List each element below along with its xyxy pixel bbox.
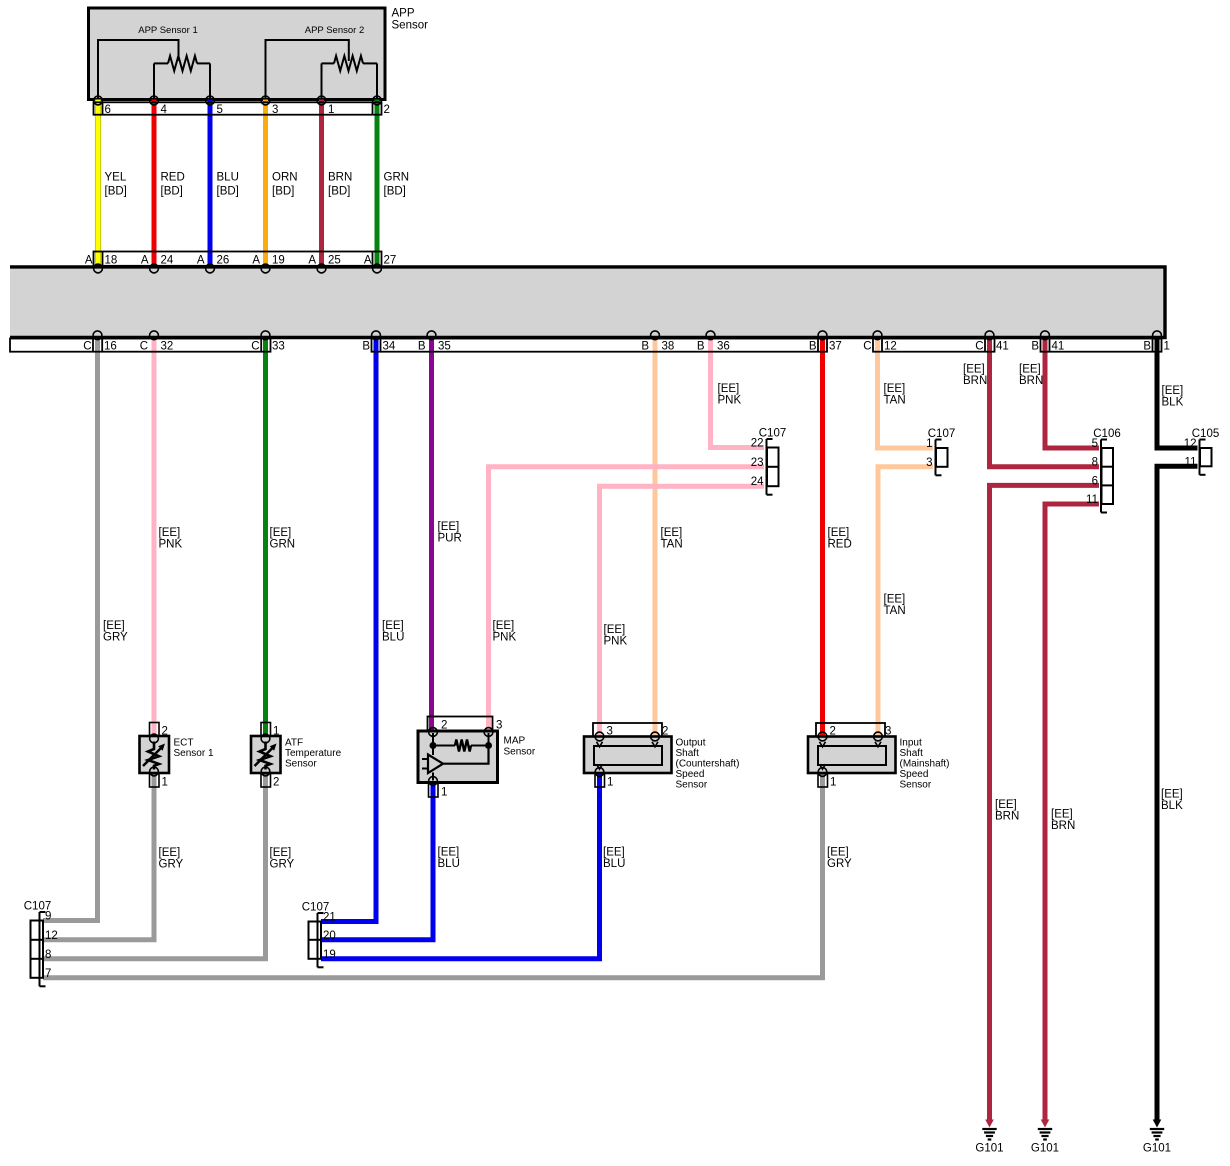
svg-text:PUR: PUR: [438, 533, 462, 545]
svg-text:TAN: TAN: [884, 395, 906, 407]
svg-text:C: C: [251, 341, 259, 353]
svg-text:[EE]: [EE]: [828, 527, 850, 539]
svg-text:[BD]: [BD]: [161, 186, 183, 198]
svg-text:C: C: [83, 341, 91, 353]
svg-text:[EE]: [EE]: [438, 521, 460, 533]
svg-text:A: A: [197, 255, 205, 267]
svg-text:B: B: [1143, 341, 1151, 353]
svg-text:[EE]: [EE]: [718, 383, 740, 395]
svg-text:GRY: GRY: [103, 632, 128, 644]
svg-text:41: 41: [1052, 341, 1065, 353]
svg-text:A: A: [141, 255, 149, 267]
svg-text:18: 18: [105, 255, 118, 267]
svg-text:Sensor: Sensor: [676, 780, 708, 791]
svg-text:ORN: ORN: [272, 172, 298, 184]
svg-text:Sensor 1: Sensor 1: [174, 748, 214, 759]
svg-text:C106: C106: [1093, 428, 1121, 440]
svg-text:[EE]: [EE]: [884, 594, 906, 606]
svg-text:APP Sensor 1: APP Sensor 1: [138, 25, 198, 36]
svg-text:4: 4: [161, 104, 168, 116]
svg-text:6: 6: [105, 104, 111, 116]
svg-text:GRY: GRY: [827, 858, 852, 870]
svg-text:[EE]: [EE]: [1019, 364, 1041, 376]
svg-text:[EE]: [EE]: [270, 527, 292, 539]
svg-text:41: 41: [996, 341, 1009, 353]
svg-text:G101: G101: [1031, 1143, 1059, 1155]
svg-text:BLK: BLK: [1162, 397, 1184, 409]
svg-text:YEL: YEL: [105, 172, 127, 184]
svg-text:26: 26: [217, 255, 230, 267]
svg-text:8: 8: [45, 949, 51, 961]
svg-text:[EE]: [EE]: [603, 847, 625, 859]
svg-text:B: B: [362, 341, 370, 353]
svg-text:C107: C107: [759, 428, 787, 440]
svg-text:TAN: TAN: [661, 539, 683, 551]
svg-text:[EE]: [EE]: [103, 620, 125, 632]
svg-text:BRN: BRN: [1019, 375, 1043, 387]
svg-text:C107: C107: [302, 902, 330, 914]
svg-text:[EE]: [EE]: [661, 527, 683, 539]
svg-text:23: 23: [751, 457, 764, 469]
svg-text:8: 8: [1092, 457, 1098, 469]
svg-text:Shaft: Shaft: [676, 748, 700, 759]
svg-text:BLU: BLU: [382, 632, 404, 644]
svg-text:C107: C107: [928, 428, 956, 440]
svg-text:(Countershaft): (Countershaft): [676, 759, 740, 770]
svg-text:Shaft: Shaft: [900, 748, 924, 759]
svg-text:16: 16: [104, 341, 117, 353]
svg-text:[EE]: [EE]: [995, 799, 1017, 811]
svg-text:32: 32: [161, 341, 174, 353]
svg-text:Sensor: Sensor: [900, 780, 932, 791]
svg-text:[BD]: [BD]: [217, 186, 239, 198]
svg-text:GRN: GRN: [270, 539, 296, 551]
svg-text:[EE]: [EE]: [382, 620, 404, 632]
svg-text:BRN: BRN: [1051, 820, 1075, 832]
svg-text:[EE]: [EE]: [827, 847, 849, 859]
svg-text:PNK: PNK: [604, 636, 628, 648]
svg-text:37: 37: [829, 341, 842, 353]
svg-text:[EE]: [EE]: [270, 847, 292, 859]
svg-text:[EE]: [EE]: [963, 364, 985, 376]
svg-text:6: 6: [1092, 475, 1098, 487]
svg-text:Output: Output: [676, 738, 706, 749]
svg-text:APP Sensor 2: APP Sensor 2: [305, 25, 365, 36]
svg-text:MAP: MAP: [504, 736, 526, 747]
svg-text:Sensor: Sensor: [285, 759, 317, 770]
svg-text:1: 1: [1164, 341, 1170, 353]
svg-text:C: C: [863, 341, 871, 353]
svg-text:1: 1: [607, 777, 613, 789]
svg-text:ECT: ECT: [174, 738, 194, 749]
svg-text:24: 24: [161, 255, 174, 267]
svg-text:A: A: [85, 255, 93, 267]
svg-text:[EE]: [EE]: [159, 527, 181, 539]
svg-text:(Mainshaft): (Mainshaft): [900, 759, 950, 770]
svg-text:1: 1: [162, 777, 168, 789]
svg-text:BLU: BLU: [217, 172, 239, 184]
svg-text:1: 1: [328, 104, 334, 116]
svg-text:B: B: [697, 341, 705, 353]
svg-text:11: 11: [1185, 456, 1197, 468]
svg-text:ATF: ATF: [285, 738, 303, 749]
svg-text:27: 27: [384, 255, 397, 267]
svg-text:[EE]: [EE]: [1051, 809, 1073, 821]
svg-text:[BD]: [BD]: [105, 186, 127, 198]
svg-text:33: 33: [272, 341, 285, 353]
svg-text:20: 20: [323, 930, 336, 942]
svg-text:11: 11: [1086, 494, 1098, 506]
svg-text:BLU: BLU: [438, 858, 460, 870]
svg-text:3: 3: [926, 457, 932, 469]
svg-text:2: 2: [273, 777, 279, 789]
svg-text:1: 1: [441, 787, 447, 799]
svg-text:Speed: Speed: [900, 769, 929, 780]
svg-text:RED: RED: [828, 539, 852, 551]
svg-text:B: B: [809, 341, 817, 353]
svg-text:[EE]: [EE]: [438, 847, 460, 859]
svg-text:BRN: BRN: [995, 811, 1019, 823]
svg-text:GRY: GRY: [159, 859, 184, 871]
svg-text:B: B: [641, 341, 649, 353]
svg-text:PNK: PNK: [718, 395, 742, 407]
svg-text:[EE]: [EE]: [159, 847, 181, 859]
svg-text:[EE]: [EE]: [1161, 789, 1183, 801]
svg-text:34: 34: [383, 341, 396, 353]
svg-text:12: 12: [884, 341, 897, 353]
svg-text:BLU: BLU: [603, 858, 625, 870]
svg-text:A: A: [252, 255, 260, 267]
svg-text:C105: C105: [1192, 428, 1220, 440]
svg-text:APP: APP: [392, 8, 415, 20]
svg-text:Temperature: Temperature: [285, 748, 342, 759]
svg-text:Sensor: Sensor: [392, 20, 429, 32]
svg-text:B: B: [418, 341, 426, 353]
svg-text:Input: Input: [900, 738, 922, 749]
svg-text:TAN: TAN: [884, 605, 906, 617]
svg-text:GRY: GRY: [270, 859, 295, 871]
svg-text:19: 19: [272, 255, 285, 267]
svg-text:12: 12: [45, 930, 58, 942]
svg-text:Speed: Speed: [676, 769, 705, 780]
svg-text:[EE]: [EE]: [1162, 385, 1184, 397]
svg-text:A: A: [308, 255, 316, 267]
svg-text:C: C: [975, 341, 983, 353]
svg-text:[BD]: [BD]: [384, 186, 406, 198]
svg-text:7: 7: [45, 968, 51, 980]
svg-text:25: 25: [328, 255, 341, 267]
svg-text:24: 24: [751, 476, 764, 488]
svg-text:BRN: BRN: [963, 375, 987, 387]
svg-text:C: C: [140, 341, 148, 353]
svg-text:[BD]: [BD]: [272, 186, 294, 198]
svg-text:B: B: [1031, 341, 1039, 353]
svg-text:[EE]: [EE]: [604, 624, 626, 636]
svg-text:G101: G101: [975, 1143, 1003, 1155]
svg-text:RED: RED: [161, 172, 185, 184]
svg-text:5: 5: [217, 104, 223, 116]
svg-text:[EE]: [EE]: [493, 620, 515, 632]
svg-text:BRN: BRN: [328, 172, 352, 184]
svg-text:1: 1: [830, 777, 836, 789]
svg-text:[EE]: [EE]: [884, 383, 906, 395]
svg-text:Sensor: Sensor: [504, 747, 536, 758]
svg-text:G101: G101: [1143, 1143, 1171, 1155]
svg-text:36: 36: [717, 341, 730, 353]
svg-text:19: 19: [323, 949, 336, 961]
svg-text:PNK: PNK: [493, 632, 517, 644]
svg-text:C107: C107: [24, 901, 52, 913]
svg-text:GRN: GRN: [384, 172, 410, 184]
svg-text:[BD]: [BD]: [328, 186, 350, 198]
svg-text:35: 35: [438, 341, 451, 353]
svg-text:A: A: [364, 255, 372, 267]
svg-text:3: 3: [272, 104, 278, 116]
svg-text:PNK: PNK: [159, 539, 183, 551]
svg-text:BLK: BLK: [1161, 800, 1183, 812]
svg-text:38: 38: [662, 341, 675, 353]
svg-text:2: 2: [384, 104, 390, 116]
